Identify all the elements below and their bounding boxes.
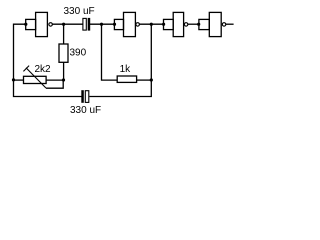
inverter U1A output bubble xyxy=(49,23,53,27)
capacitor C2 330uF negative plate (solid) xyxy=(82,91,84,103)
inverter U1D input box xyxy=(199,19,209,29)
inverter U1A main body xyxy=(36,12,48,36)
inverter U1D output bubble xyxy=(222,23,226,27)
junction dot node D (right rail top) xyxy=(150,23,153,26)
inverter U1B input box xyxy=(114,19,123,29)
junction dot gate4 input xyxy=(197,23,200,26)
resistor R1 390 bottom lead xyxy=(63,62,65,80)
potentiometer P1 2k2 left lead xyxy=(14,79,24,81)
junction dot node C (R1 bottom / wiper) xyxy=(62,78,65,81)
inverter U1B output bubble xyxy=(136,23,140,27)
wire gate2 output to gate3 input xyxy=(139,23,163,25)
wire gate1 input / left rail / bottom wire to C2 xyxy=(14,24,83,96)
junction dot pot left xyxy=(12,78,15,81)
svg-text:330 uF: 330 uF xyxy=(64,6,95,17)
svg-text:330 uF: 330 uF xyxy=(70,105,101,116)
junction dot node B (R2 tap) xyxy=(100,23,103,26)
potentiometer P1 wiper diagonal xyxy=(26,68,46,88)
inverter U1C main body xyxy=(173,12,183,36)
wire node B riser (cap1 right to R2 1k) xyxy=(102,24,118,80)
potentiometer P1 2k2 right lead xyxy=(46,79,63,81)
potentiometer P1 preset T-bar xyxy=(23,66,29,72)
svg-text:390: 390 xyxy=(70,48,87,59)
wire C2 to right rail up to top wire xyxy=(89,24,151,96)
inverter U1C output bubble xyxy=(184,23,188,27)
junction dot gate1 input xyxy=(24,23,27,26)
wire C1 to gate2 input xyxy=(90,23,115,25)
resistor R1 390 top lead xyxy=(63,24,65,44)
resistor R2 1k right lead xyxy=(137,79,152,81)
inverter U1D main body xyxy=(209,12,221,36)
wire wiper to node C xyxy=(46,80,63,88)
inverter U1A input box xyxy=(26,19,36,29)
svg-text:2k2: 2k2 xyxy=(35,64,52,75)
resistor R1 390 body xyxy=(59,44,68,62)
potentiometer P1 2k2 body xyxy=(24,76,47,83)
wire gate1 output to C1 xyxy=(52,23,83,25)
junction dot gate2 input xyxy=(113,23,116,26)
inverter U1B main body xyxy=(124,12,136,36)
resistor R2 1k body xyxy=(117,76,136,82)
inverter U1C input box xyxy=(164,19,174,29)
capacitor C1 330uF negative plate (solid) xyxy=(88,18,90,30)
svg-text:1k: 1k xyxy=(120,64,132,75)
junction dot node A (R1 top) xyxy=(62,23,65,26)
junction dot node D (R2 right) xyxy=(150,78,153,81)
junction dot gate3 input xyxy=(162,23,165,26)
capacitor C1 330uF positive plate (hollow) xyxy=(83,18,86,30)
wire gate3 output to gate4 input xyxy=(188,23,199,25)
capacitor C2 330uF positive plate (hollow) xyxy=(85,91,89,103)
wire gate4 output (open end) xyxy=(226,23,234,25)
